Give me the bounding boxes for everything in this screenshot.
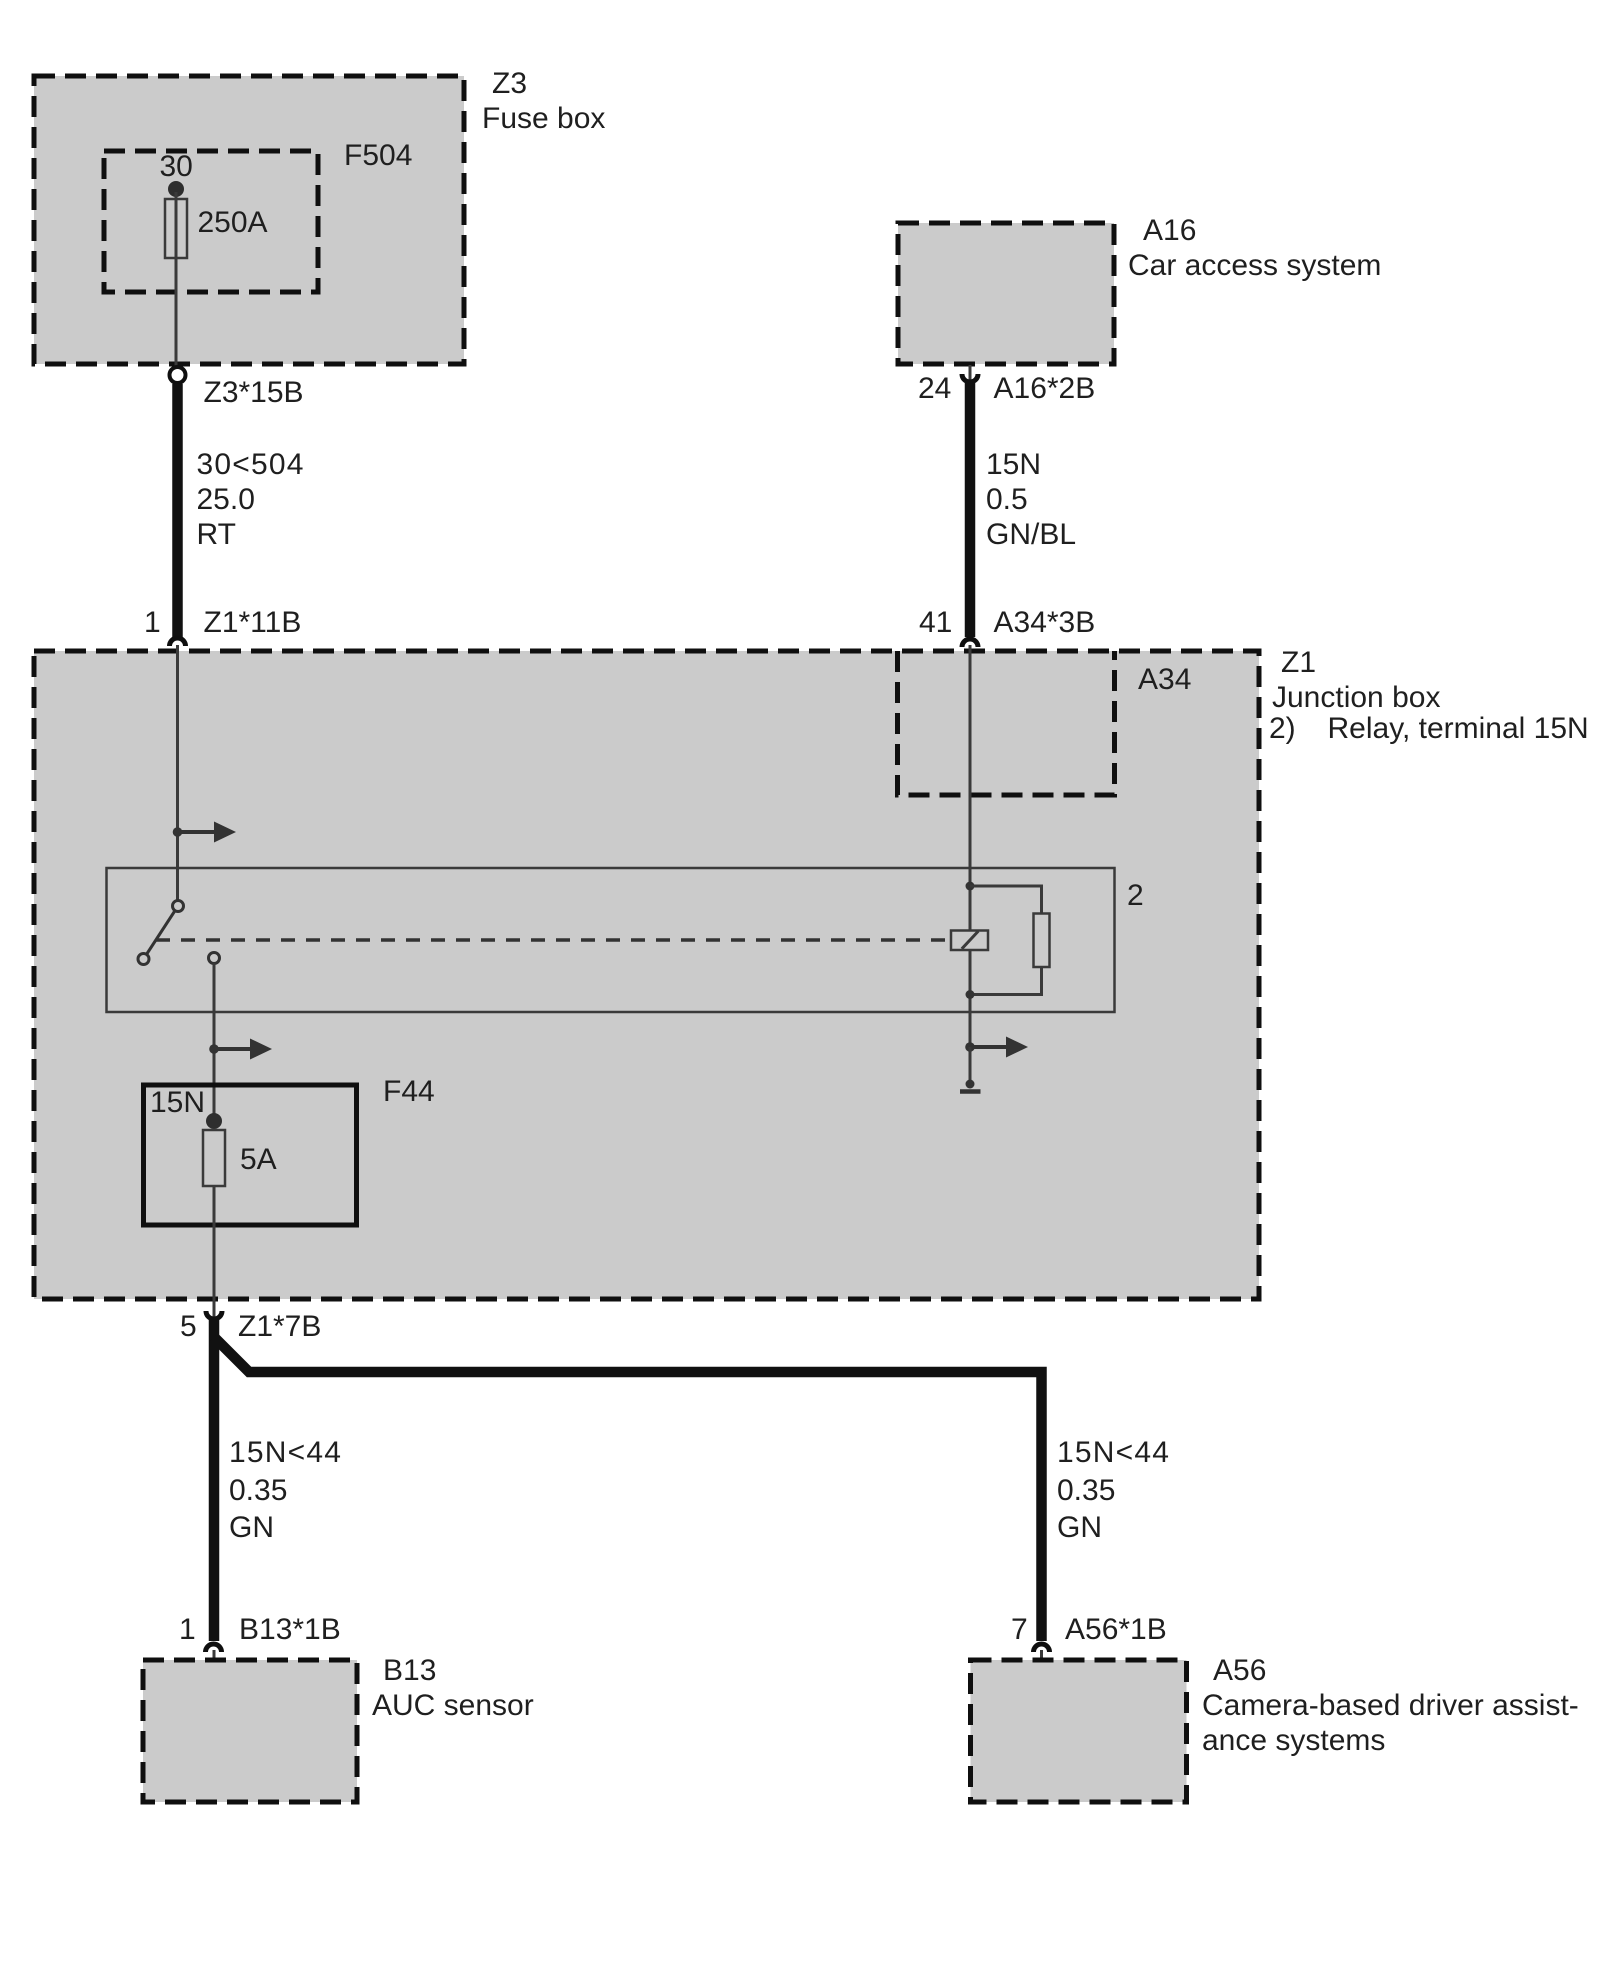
- svg-text:Fuse box: Fuse box: [482, 102, 605, 135]
- connector A34*3B (pin arch): [962, 639, 978, 647]
- resistor (suppression): [1034, 914, 1050, 968]
- wire from fuse to Z1*7B: [213, 1186, 216, 1297]
- junction box Z1: [34, 651, 1259, 1299]
- stub from A16: [969, 365, 972, 380]
- svg-text:RT: RT: [197, 518, 236, 551]
- svg-text:GN: GN: [1057, 1511, 1102, 1544]
- fuse F44 5A: [203, 1130, 225, 1186]
- connector B13*1B (pin arch): [206, 1644, 222, 1652]
- svg-text:Z1*11B: Z1*11B: [204, 606, 302, 639]
- mechanical linkage (dashed): [156, 938, 951, 942]
- control module A16: [898, 223, 1114, 364]
- svg-text:250A: 250A: [198, 206, 268, 239]
- wire to ground: [969, 1047, 972, 1084]
- svg-text:Camera-based driver assist-: Camera-based driver assist-: [1202, 1689, 1579, 1722]
- relay coil: [951, 931, 988, 951]
- svg-text:A56*1B: A56*1B: [1065, 1613, 1167, 1646]
- svg-text:GN: GN: [229, 1511, 274, 1544]
- svg-text:Z1: Z1: [1281, 646, 1316, 679]
- switch open contact: [138, 954, 149, 965]
- connector A16*2B (socket cup): [962, 374, 978, 382]
- svg-text:5A: 5A: [240, 1143, 277, 1176]
- stub into A56: [1040, 1650, 1043, 1663]
- svg-text:A16: A16: [1143, 214, 1196, 247]
- wire from A34*3B down to relay coil and ground: [969, 645, 972, 1047]
- svg-text:15N<44: 15N<44: [1057, 1436, 1170, 1469]
- svg-text:A34: A34: [1138, 663, 1191, 696]
- connector Z3*15B (socket circle): [170, 367, 186, 383]
- wire through fuse F504: [175, 192, 178, 369]
- svg-text:41: 41: [919, 606, 952, 639]
- ground: [966, 1080, 975, 1089]
- svg-text:A56: A56: [1213, 1654, 1266, 1687]
- svg-text:Z3: Z3: [492, 67, 527, 100]
- svg-text:30<504: 30<504: [197, 448, 305, 481]
- node coil bottom: [966, 990, 975, 999]
- svg-text:0.35: 0.35: [1057, 1474, 1115, 1507]
- switch pivot contact: [173, 901, 184, 912]
- node 15N (terminal dot): [206, 1113, 222, 1129]
- svg-text:Car access system: Car access system: [1128, 249, 1381, 282]
- svg-text:15N: 15N: [150, 1086, 205, 1119]
- wire 30<504 25.0 RT (thick): [172, 384, 183, 637]
- svg-text:GN/BL: GN/BL: [986, 518, 1076, 551]
- sensor B13: [143, 1660, 357, 1802]
- svg-text:F504: F504: [344, 139, 412, 172]
- wire from switch to fuse F44: [213, 963, 216, 1122]
- fuse F504 250A: [165, 199, 187, 258]
- svg-text:15N: 15N: [986, 448, 1041, 481]
- svg-text:Z1*7B: Z1*7B: [238, 1310, 321, 1343]
- svg-text:24: 24: [918, 372, 951, 405]
- off-page arrow: [970, 1045, 1006, 1049]
- fuse holder F44: [144, 1085, 357, 1225]
- svg-text:Relay, terminal 15N: Relay, terminal 15N: [1328, 712, 1589, 745]
- svg-text:B13: B13: [383, 1654, 436, 1687]
- svg-text:1: 1: [179, 1613, 196, 1646]
- svg-text:0.35: 0.35: [229, 1474, 287, 1507]
- wire 15N<44 to B13 (thick): [209, 1317, 220, 1641]
- off-page arrow: [214, 1047, 250, 1051]
- control module A56: [971, 1660, 1187, 1802]
- node with off-page arrow (middle): [209, 1044, 219, 1054]
- fuse box Z3: [34, 76, 464, 364]
- svg-text:5: 5: [180, 1310, 197, 1343]
- svg-text:AUC sensor: AUC sensor: [372, 1689, 534, 1722]
- node with off-page arrow (right): [965, 1042, 975, 1052]
- node with off-page arrow (left): [173, 827, 183, 837]
- wire into junction (thin) from Z1*11B to switch pivot: [176, 645, 179, 901]
- stub from Z1 bottom: [213, 1297, 216, 1317]
- svg-text:A16*2B: A16*2B: [994, 372, 1096, 405]
- wire 15N 0.5 GN/BL (thick): [965, 380, 976, 637]
- wire branch to A56 (thick): [214, 1337, 1042, 1641]
- svg-text:2: 2: [1127, 879, 1144, 912]
- wire to suppression resistor: [970, 886, 1042, 914]
- svg-text:30: 30: [160, 150, 193, 183]
- svg-text:Junction box: Junction box: [1272, 681, 1440, 714]
- svg-text:B13*1B: B13*1B: [239, 1613, 341, 1646]
- relay module A34: [898, 651, 1115, 795]
- node coil top: [966, 882, 975, 891]
- connector A56*1B (pin arch): [1034, 1644, 1050, 1652]
- svg-text:1: 1: [144, 606, 161, 639]
- svg-text:7: 7: [1011, 1613, 1028, 1646]
- fuse carrier F504: [104, 151, 318, 292]
- stub into B13: [213, 1650, 216, 1663]
- node 30 (terminal dot): [168, 181, 184, 197]
- connector Z1*11B (pin arch): [170, 638, 186, 646]
- switch blade: [144, 906, 179, 959]
- svg-text:25.0: 25.0: [197, 483, 255, 516]
- svg-text:A34*3B: A34*3B: [994, 606, 1096, 639]
- wire resistor bottom: [970, 967, 1042, 995]
- relay 2 outline: [107, 868, 1115, 1012]
- off-page arrow: [178, 830, 215, 834]
- svg-text:ance systems: ance systems: [1202, 1724, 1385, 1757]
- svg-text:F44: F44: [383, 1075, 435, 1108]
- svg-text:Z3*15B: Z3*15B: [204, 376, 304, 409]
- switch output contact: [209, 953, 220, 964]
- connector Z1*7B (socket cup): [206, 1311, 222, 1319]
- svg-text:2): 2): [1269, 712, 1296, 745]
- svg-text:15N<44: 15N<44: [229, 1436, 342, 1469]
- svg-text:0.5: 0.5: [986, 483, 1028, 516]
